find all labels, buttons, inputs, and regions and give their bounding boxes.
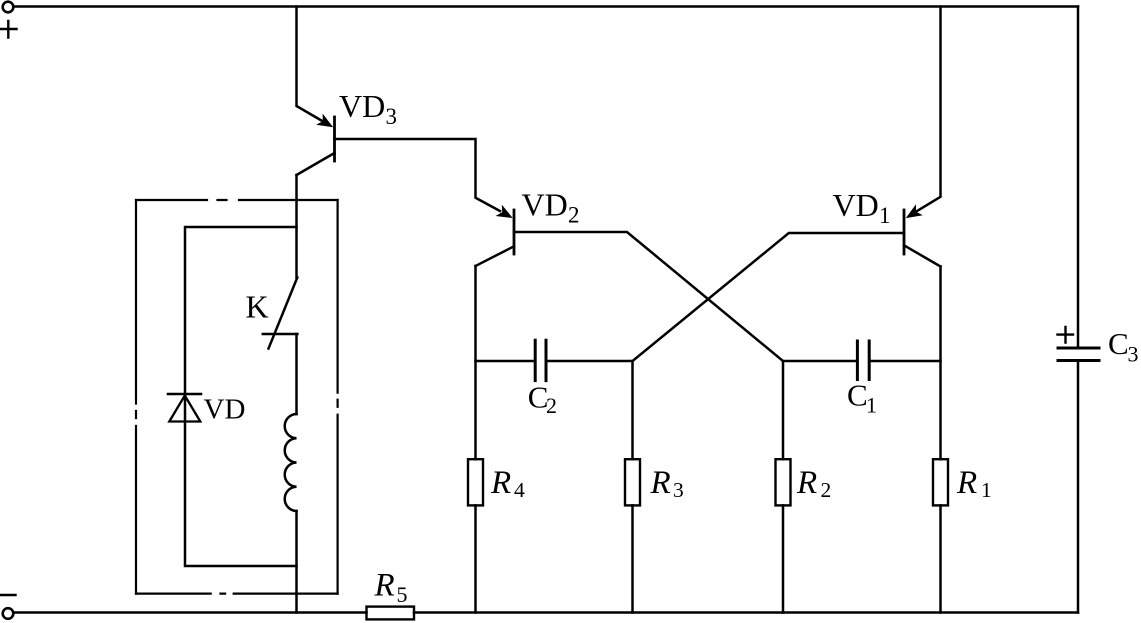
plus sign label bbox=[0, 21, 17, 38]
svg-text:5: 5 bbox=[397, 582, 408, 607]
terminal - (bottom-left) bbox=[3, 608, 14, 619]
wire R3 branch bbox=[631, 361, 634, 459]
svg-text:VD: VD bbox=[522, 187, 568, 223]
svg-text:VD: VD bbox=[204, 394, 246, 426]
label C2 bbox=[528, 380, 557, 419]
wire VD3 base to VD2 emitter bbox=[335, 139, 501, 211]
label R4 bbox=[490, 465, 525, 502]
svg-text:1: 1 bbox=[879, 203, 891, 228]
label R1 bbox=[956, 465, 992, 502]
terminal + (top-left) bbox=[3, 2, 14, 13]
label C1 bbox=[847, 378, 877, 418]
svg-text:C: C bbox=[1108, 326, 1129, 361]
wire VD1 collector down to C1/R1 bbox=[939, 267, 942, 460]
capacitor C1 bbox=[783, 341, 941, 380]
label VD2 bbox=[522, 187, 580, 228]
wire switch to coil bbox=[295, 334, 298, 414]
transistor VD3 bbox=[297, 114, 335, 175]
wire bottom rail left of R5 bbox=[14, 611, 367, 614]
wire VD1 base cross-coupling to R3/C2 node bbox=[633, 233, 905, 361]
svg-text:3: 3 bbox=[386, 104, 398, 129]
wire bottom rail right of R5 bbox=[414, 611, 1078, 614]
inductor relay coil bbox=[285, 414, 297, 511]
capacitor C2 bbox=[476, 340, 633, 380]
minus sign label bbox=[0, 594, 16, 596]
wire VD2 base cross-coupling to R2/C1 node bbox=[514, 232, 783, 361]
resistor R2 bbox=[776, 459, 791, 505]
label R2 bbox=[796, 465, 831, 502]
svg-text:VD: VD bbox=[339, 88, 385, 124]
svg-text:4: 4 bbox=[514, 478, 525, 502]
wire top rail bbox=[14, 5, 1079, 8]
svg-text:3: 3 bbox=[673, 478, 684, 502]
wire R2 branch bbox=[782, 361, 785, 459]
plus sign of C3 bbox=[1058, 327, 1074, 343]
label VD bbox=[204, 394, 246, 426]
wire coil to bottom rail bbox=[295, 511, 298, 613]
svg-text:2: 2 bbox=[821, 478, 832, 502]
capacitor C3 (electrolytic) bbox=[1058, 7, 1099, 613]
label K bbox=[246, 288, 269, 324]
svg-text:1: 1 bbox=[981, 478, 992, 502]
svg-text:R: R bbox=[490, 465, 511, 501]
resistor R4 bbox=[468, 459, 483, 505]
label R5 bbox=[374, 568, 408, 607]
svg-text:R: R bbox=[956, 465, 977, 501]
svg-text:VD: VD bbox=[833, 187, 879, 223]
transistor VD1 bbox=[904, 204, 941, 266]
wire VD3 collector down into relay bbox=[295, 175, 298, 278]
svg-text:K: K bbox=[246, 288, 269, 324]
switch K bbox=[263, 278, 298, 349]
transistor VD2 bbox=[476, 205, 515, 266]
resistor R1 bbox=[933, 459, 948, 505]
wire R4 to bottom rail bbox=[474, 505, 477, 612]
svg-text:2: 2 bbox=[568, 203, 580, 228]
label C3 bbox=[1108, 326, 1139, 367]
svg-text:R: R bbox=[796, 465, 817, 501]
label VD3 bbox=[339, 88, 397, 129]
svg-text:R: R bbox=[650, 465, 671, 501]
wire VD1 emitter from + rail bbox=[917, 7, 941, 212]
svg-text:1: 1 bbox=[866, 393, 877, 418]
svg-text:2: 2 bbox=[546, 393, 557, 418]
svg-text:R: R bbox=[374, 568, 395, 604]
resistor R5 bbox=[367, 607, 415, 620]
resistor R3 bbox=[625, 459, 640, 505]
label VD1 bbox=[833, 187, 891, 228]
wire R3 to bottom rail bbox=[631, 505, 634, 612]
svg-text:3: 3 bbox=[1128, 342, 1139, 367]
relay enclosure dash-dot box bbox=[136, 200, 338, 594]
svg-text:C: C bbox=[847, 378, 868, 413]
inner relay rectangle frame bbox=[185, 227, 297, 566]
label R3 bbox=[650, 465, 684, 502]
wire VD3 emitter from + rail bbox=[297, 7, 325, 123]
wire R1 to bottom rail bbox=[939, 505, 942, 612]
diode VD bbox=[168, 394, 201, 422]
wire VD2 collector down to C2/R4 bbox=[474, 266, 477, 459]
wire R2 to bottom rail bbox=[782, 505, 785, 612]
